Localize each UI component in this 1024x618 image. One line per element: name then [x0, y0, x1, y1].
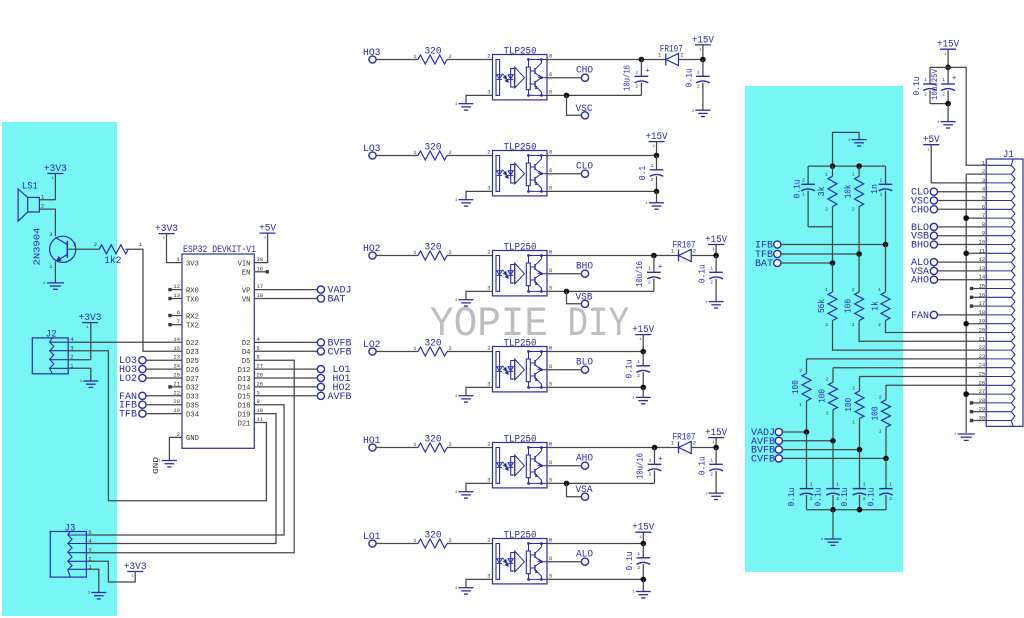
wire — [691, 447, 716, 449]
svg-text:0.1u: 0.1u — [793, 180, 803, 199]
svg-text:2: 2 — [637, 373, 640, 379]
svg-text:2: 2 — [648, 280, 651, 286]
wire — [447, 155, 493, 157]
wire pin8 rail — [547, 255, 679, 257]
svg-text:2: 2 — [693, 248, 696, 255]
wire pin8 rail — [547, 447, 679, 449]
ground — [459, 395, 474, 397]
svg-text:10u/16: 10u/16 — [636, 453, 646, 479]
svg-text:TFB: TFB — [119, 410, 137, 421]
wire J1 pin24 feed — [833, 367, 986, 369]
svg-text:CHO: CHO — [911, 205, 929, 216]
node BAT — [254, 298, 317, 300]
wire J2 pin3 to D21 loop — [68, 351, 266, 501]
svg-text:D26: D26 — [186, 367, 199, 375]
svg-text:10u/16: 10u/16 — [622, 65, 632, 91]
wire BAT — [781, 262, 833, 264]
svg-text:6: 6 — [549, 71, 552, 78]
svg-text:10u/25V: 10u/25V — [930, 68, 940, 100]
wire — [376, 59, 418, 61]
svg-text:2: 2 — [697, 84, 700, 90]
junction — [640, 349, 646, 355]
wire pin6 to BLO — [547, 369, 581, 371]
svg-text:2: 2 — [810, 496, 813, 502]
stub J1 pin 17 — [973, 305, 986, 307]
junction — [654, 153, 660, 159]
svg-text:2: 2 — [487, 53, 490, 60]
stub D32 — [171, 386, 182, 388]
svg-text:2: 2 — [863, 496, 866, 502]
wire — [376, 543, 418, 545]
svg-text:2: 2 — [852, 287, 855, 293]
ground (divider network top) — [852, 139, 867, 141]
stub RX2 — [171, 315, 182, 317]
junction — [857, 507, 863, 513]
capacitor 0.1u — [642, 544, 644, 558]
svg-text:DIY: DIY — [568, 301, 630, 348]
svg-text:2: 2 — [924, 91, 927, 97]
wire 1k to J1 pin20 — [886, 321, 987, 333]
svg-text:2: 2 — [710, 472, 713, 478]
svg-text:56k: 56k — [817, 299, 827, 313]
svg-text:0.1u: 0.1u — [625, 359, 635, 378]
ground — [642, 387, 644, 397]
svg-text:TX0: TX0 — [186, 296, 199, 304]
svg-text:TLP250: TLP250 — [504, 339, 537, 350]
svg-text:1: 1 — [810, 482, 813, 488]
svg-text:2N3904: 2N3904 — [32, 228, 42, 266]
wire pin8 rail — [547, 351, 643, 353]
svg-text:1: 1 — [836, 482, 839, 488]
resistor 100 (TFB) — [858, 254, 860, 292]
wire pin3 to ground — [466, 387, 493, 395]
svg-text:2: 2 — [852, 207, 855, 213]
svg-text:5: 5 — [549, 572, 552, 579]
ground (filter group) — [824, 538, 841, 540]
svg-text:2: 2 — [487, 149, 490, 156]
svg-text:D33: D33 — [186, 394, 199, 402]
svg-text:1: 1 — [852, 322, 855, 328]
junction — [564, 93, 570, 99]
wire — [808, 226, 832, 228]
svg-text:1: 1 — [648, 265, 651, 271]
ground — [459, 299, 474, 301]
wire pin3 to ground — [466, 95, 493, 103]
wire pin5 line — [547, 94, 641, 96]
capacitor 0.1u — [715, 256, 717, 273]
svg-text:2: 2 — [693, 440, 696, 447]
capacitor 0.1u — [715, 448, 717, 465]
junction — [700, 57, 706, 63]
svg-text:AHO: AHO — [911, 276, 929, 287]
svg-text:CVFB: CVFB — [751, 454, 775, 465]
svg-text:2: 2 — [852, 386, 855, 392]
svg-text:0.1u: 0.1u — [867, 488, 877, 507]
wire 56k to J1 pin22 — [833, 321, 987, 351]
svg-text:1: 1 — [697, 69, 700, 75]
svg-text:8: 8 — [549, 249, 552, 256]
svg-text:1: 1 — [863, 482, 866, 488]
wire — [930, 103, 948, 105]
optocoupler TLP250 (LO2 row) — [493, 347, 548, 392]
node VADJ — [254, 289, 317, 291]
wire pin6 to CLO — [547, 173, 581, 175]
wire J1 pin23 feed — [807, 358, 987, 360]
svg-text:2: 2 — [889, 496, 892, 502]
capacitor 10u/25V (supply) — [947, 67, 949, 84]
junction — [883, 456, 889, 462]
wire — [782, 449, 859, 451]
highlight region left — [2, 122, 117, 616]
ground — [695, 109, 710, 111]
wire +15V to J1 pin1 — [948, 67, 986, 165]
svg-text:BAT: BAT — [328, 295, 346, 306]
svg-text:2: 2 — [826, 377, 829, 383]
wire — [691, 255, 716, 257]
stub J1 pin 15 — [973, 288, 986, 290]
wire GND pin to ground — [169, 437, 182, 460]
svg-text:D13: D13 — [238, 376, 251, 384]
svg-text:3: 3 — [487, 380, 490, 387]
svg-text:RX2: RX2 — [186, 313, 199, 321]
svg-text:11: 11 — [257, 416, 264, 423]
svg-text:D22: D22 — [186, 340, 199, 348]
wire J3 pin5 to D18 — [86, 405, 284, 535]
wire J3 pin4 to D19 — [86, 414, 276, 544]
svg-text:0.1u: 0.1u — [840, 488, 850, 507]
wire — [447, 447, 493, 449]
node CVFB — [254, 350, 317, 352]
svg-text:D2: D2 — [242, 340, 251, 348]
junction — [857, 447, 863, 453]
svg-text:D25: D25 — [186, 358, 199, 366]
svg-text:D12: D12 — [238, 367, 251, 375]
svg-text:FAN: FAN — [911, 311, 929, 322]
ground — [91, 592, 106, 594]
wire base — [68, 248, 99, 250]
svg-text:2: 2 — [680, 52, 683, 59]
wire — [376, 255, 418, 257]
svg-text:2: 2 — [635, 84, 638, 90]
svg-text:VIN: VIN — [238, 260, 251, 268]
wire TFB — [781, 253, 859, 255]
svg-text:5: 5 — [549, 476, 552, 483]
svg-text:VP: VP — [242, 287, 251, 295]
ground — [709, 301, 724, 303]
svg-text:3: 3 — [49, 231, 52, 238]
wire speaker pin1 — [39, 199, 55, 201]
wire emitter to ground — [54, 262, 56, 283]
svg-text:GND: GND — [153, 456, 161, 474]
resistor 10k — [858, 166, 860, 176]
svg-text:1: 1 — [637, 551, 640, 557]
svg-text:2: 2 — [825, 207, 828, 213]
junction — [713, 253, 719, 259]
svg-text:8: 8 — [549, 149, 552, 156]
svg-text:1: 1 — [651, 163, 654, 169]
wire J1 pin11 to ground bus — [966, 252, 986, 254]
svg-text:0.1u: 0.1u — [814, 488, 824, 507]
wire to ground — [832, 510, 834, 539]
wire bottom rail — [807, 509, 887, 511]
wire — [376, 351, 418, 353]
wire to VSA — [567, 483, 582, 496]
wire pin8 rail — [547, 59, 666, 61]
wire — [679, 59, 703, 61]
capacitor 0.1 — [656, 156, 658, 170]
optocoupler TLP250 (HO3 row) — [493, 55, 548, 100]
ground — [709, 492, 724, 494]
svg-text:0.1u: 0.1u — [684, 68, 694, 87]
optocoupler TLP250 (LO1 row) — [493, 539, 548, 584]
wire to VSB — [567, 291, 582, 303]
svg-text:EN: EN — [242, 270, 251, 278]
capacitor 0.1u (VADJ) — [806, 432, 808, 489]
svg-text:TLP250: TLP250 — [504, 531, 537, 542]
ground — [642, 579, 644, 591]
highlight region right — [745, 86, 903, 572]
svg-text:1: 1 — [942, 77, 945, 83]
svg-text:10u/16: 10u/16 — [635, 261, 645, 287]
svg-text:+: + — [658, 263, 663, 271]
stub TX0 — [171, 298, 182, 300]
wire J1 pin19 to ground bus — [966, 323, 986, 325]
junction — [641, 541, 647, 547]
wire — [376, 155, 418, 157]
svg-text:D21: D21 — [238, 420, 251, 428]
svg-text:BHO: BHO — [911, 241, 929, 252]
capacitor 10u/16 (bootstrap) — [640, 60, 642, 77]
svg-text:3: 3 — [487, 572, 490, 579]
svg-text:1: 1 — [825, 287, 828, 293]
optocoupler TLP250 (HO1 row) — [493, 443, 548, 488]
svg-text:TX2: TX2 — [186, 323, 199, 331]
junction — [856, 163, 862, 169]
svg-text:3: 3 — [487, 184, 490, 191]
svg-text:GND: GND — [186, 435, 199, 443]
junction — [641, 577, 647, 583]
svg-text:8: 8 — [549, 53, 552, 60]
optocoupler TLP250 (HO2 row) — [493, 251, 548, 296]
wire J2 pin1 to ground — [68, 368, 91, 381]
svg-text:1: 1 — [889, 482, 892, 488]
svg-text:5: 5 — [549, 88, 552, 95]
svg-text:1: 1 — [924, 77, 927, 83]
svg-text:8: 8 — [549, 345, 552, 352]
svg-text:LO2: LO2 — [119, 374, 137, 385]
wire pin5 line — [547, 190, 657, 192]
svg-text:100: 100 — [870, 407, 880, 421]
svg-text:1n: 1n — [870, 184, 880, 194]
ground — [941, 121, 956, 123]
svg-text:1: 1 — [635, 69, 638, 75]
wire pin8 rail — [547, 543, 643, 545]
wire — [447, 59, 493, 61]
svg-text:3k: 3k — [817, 186, 827, 196]
svg-text:0.1u: 0.1u — [912, 77, 922, 96]
wire — [447, 255, 493, 257]
svg-text:10k: 10k — [844, 184, 854, 198]
wire +5V to J1 pin3 — [931, 145, 986, 183]
resistor 100 (VADJ) — [806, 359, 808, 374]
wire — [782, 431, 806, 433]
svg-text:D14: D14 — [238, 385, 251, 393]
svg-text:2: 2 — [880, 177, 883, 183]
ground — [47, 282, 64, 284]
wire J3 pin2 to +3V3 — [86, 561, 135, 582]
svg-text:BAT: BAT — [755, 259, 773, 270]
svg-text:3V3: 3V3 — [186, 260, 199, 268]
svg-text:9: 9 — [257, 398, 260, 405]
svg-text:2: 2 — [710, 280, 713, 286]
svg-text:1k: 1k — [871, 301, 881, 311]
svg-text:6: 6 — [549, 459, 552, 466]
junction — [651, 253, 657, 259]
svg-text:3: 3 — [487, 284, 490, 291]
wire IFB — [781, 244, 886, 246]
stub J1 pin 30 — [973, 420, 986, 422]
wire J3 pin1 to ground — [86, 569, 98, 592]
junction — [830, 163, 836, 169]
svg-text:2: 2 — [879, 394, 882, 400]
resistor 100 (BVFB) — [859, 377, 861, 392]
svg-text:6: 6 — [549, 167, 552, 174]
svg-text:1: 1 — [878, 287, 881, 293]
ground — [459, 103, 474, 105]
module U2 ESP32 DEVKIT-V1 — [182, 254, 254, 448]
svg-text:TLP250: TLP250 — [504, 47, 537, 58]
svg-text:5: 5 — [549, 380, 552, 387]
ground — [656, 191, 658, 202]
wire pin3 to ground — [466, 291, 493, 299]
svg-text:2: 2 — [825, 322, 828, 328]
wire top rail — [808, 165, 885, 167]
resistor 1k — [885, 245, 887, 293]
svg-text:+: + — [645, 67, 650, 75]
junction — [640, 385, 646, 391]
svg-text:8: 8 — [257, 354, 260, 361]
svg-text:100: 100 — [844, 398, 854, 412]
svg-text:+: + — [952, 75, 957, 83]
junction — [652, 445, 658, 451]
wire pin5 line — [547, 482, 655, 484]
junction — [945, 65, 951, 71]
svg-text:RX0: RX0 — [186, 287, 199, 295]
capacitor 0.1u (supply) — [930, 66, 948, 68]
svg-text:TLP250: TLP250 — [504, 143, 537, 154]
resistor 100 (AVFB) — [832, 368, 834, 383]
node BVFB — [254, 341, 317, 343]
svg-text:2: 2 — [942, 91, 945, 97]
resistor 56k — [832, 263, 834, 292]
wire pin6 to AHO — [547, 465, 581, 467]
wire J2 pin4 to D22 — [68, 341, 182, 343]
wire pin5 line — [547, 290, 654, 292]
svg-text:8: 8 — [549, 441, 552, 448]
wire pin3 to ground — [466, 483, 493, 491]
svg-text:D23: D23 — [186, 349, 199, 357]
capacitor 10u/16 (bootstrap) — [654, 448, 656, 465]
svg-text:CVFB: CVFB — [328, 347, 352, 358]
junction — [830, 507, 836, 513]
resistor 100 (CVFB) — [885, 385, 887, 400]
stub RX0 — [171, 289, 182, 291]
svg-text:3: 3 — [487, 88, 490, 95]
wire pin6 to ALO — [547, 561, 581, 563]
svg-text:100: 100 — [791, 380, 801, 394]
svg-text:6: 6 — [549, 555, 552, 562]
svg-text:1: 1 — [825, 172, 828, 178]
wire J1 pin26 feed — [886, 384, 986, 386]
svg-text:2: 2 — [94, 241, 97, 248]
wire VIN pin — [254, 233, 267, 263]
wire 100 to J1 pin21 — [859, 321, 986, 342]
svg-text:ESP32 DEVKIT-V1: ESP32 DEVKIT-V1 — [183, 244, 256, 256]
svg-text:15: 15 — [173, 345, 180, 352]
junction — [564, 289, 570, 295]
wire pin6 to BHO — [547, 273, 581, 275]
svg-text:2: 2 — [73, 241, 76, 248]
svg-text:1: 1 — [710, 457, 713, 463]
svg-text:2: 2 — [836, 496, 839, 502]
wire pin5 line — [547, 578, 643, 580]
svg-text:2: 2 — [651, 177, 654, 183]
svg-text:2: 2 — [487, 537, 490, 544]
svg-text:1: 1 — [649, 457, 652, 463]
svg-text:1: 1 — [710, 265, 713, 271]
svg-text:0.1u: 0.1u — [698, 264, 708, 283]
svg-text:6: 6 — [549, 267, 552, 274]
capacitor 10u/16 (bootstrap) — [653, 256, 655, 273]
svg-text:1: 1 — [799, 402, 802, 408]
svg-text:2: 2 — [637, 565, 640, 571]
wire pin3 to ground — [466, 579, 493, 587]
wire — [447, 351, 493, 353]
svg-text:D15: D15 — [238, 394, 251, 402]
wire J1 pin2 ground bus — [966, 173, 986, 175]
wire speaker pin2 to Q1 collector — [39, 209, 55, 236]
svg-text:1: 1 — [826, 411, 829, 417]
optocoupler TLP250 (LO3 row) — [493, 151, 548, 196]
svg-text:TLP250: TLP250 — [504, 243, 537, 254]
wire pin3 to ground — [466, 191, 493, 199]
svg-text:0.1u: 0.1u — [625, 551, 635, 570]
ground — [459, 491, 474, 493]
svg-text:VN: VN — [242, 296, 251, 304]
svg-text:2: 2 — [878, 322, 881, 328]
capacitor 0.1u — [642, 352, 644, 366]
svg-text:1: 1 — [879, 428, 882, 434]
svg-text:5: 5 — [549, 184, 552, 191]
stub TX2 — [171, 324, 182, 326]
stub J1 pin 16 — [973, 296, 986, 298]
capacitor 0.1u (IFB filter) — [807, 166, 809, 184]
wire to VSC — [567, 95, 582, 115]
junction — [654, 189, 660, 195]
capacitor 0.1u — [702, 60, 704, 77]
svg-text:0.1u: 0.1u — [787, 488, 797, 507]
svg-text:0.1u: 0.1u — [698, 456, 708, 475]
ground — [459, 587, 474, 589]
svg-text:2: 2 — [487, 441, 490, 448]
svg-text:10: 10 — [257, 407, 264, 414]
svg-text:LS1: LS1 — [22, 182, 38, 193]
ground (ESP32) — [162, 460, 177, 462]
junction — [945, 101, 951, 107]
wire 3V3 pin — [167, 234, 183, 263]
svg-text:1k2: 1k2 — [104, 255, 121, 267]
wire pin5 line — [547, 386, 643, 388]
